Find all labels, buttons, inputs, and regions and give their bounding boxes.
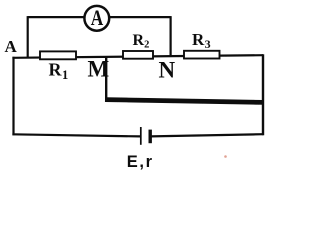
svg-text:A: A — [5, 37, 18, 56]
svg-text:M: M — [88, 56, 110, 81]
svg-text:E,r: E,r — [127, 153, 154, 171]
svg-text:N: N — [159, 57, 176, 82]
svg-text:A: A — [91, 5, 104, 30]
